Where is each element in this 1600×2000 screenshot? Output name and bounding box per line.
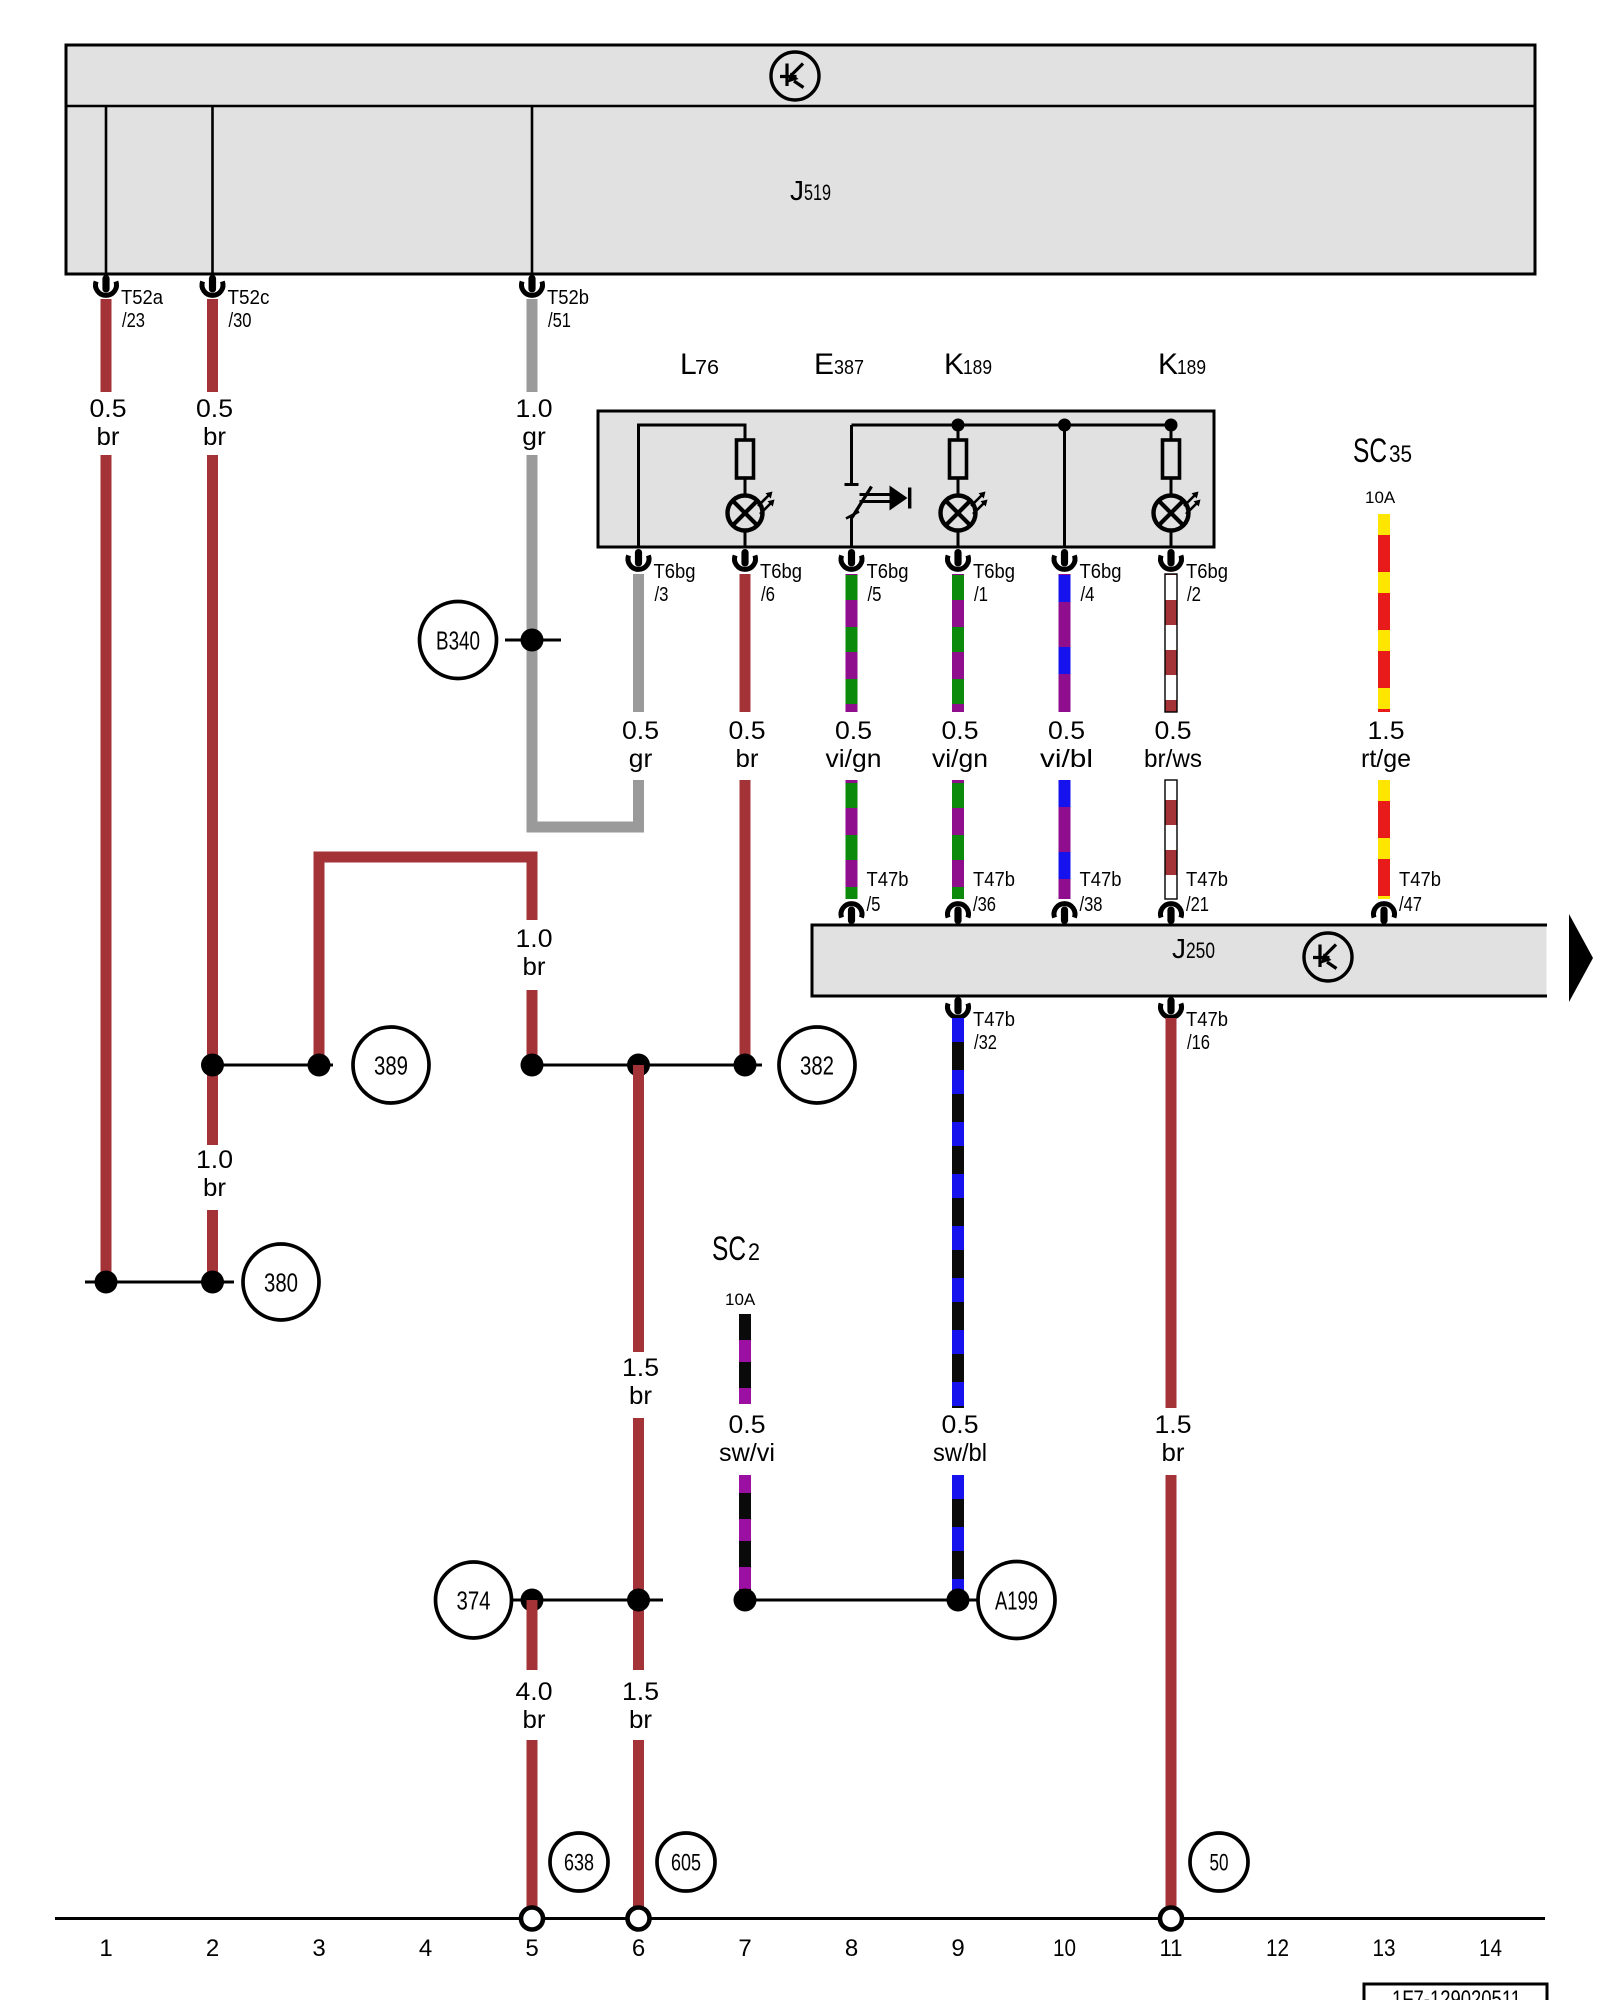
svg-text:0.5: 0.5 xyxy=(622,717,659,745)
wire 1.5 br (column 6, upper) xyxy=(633,1065,644,1352)
svg-text:T47b: T47b xyxy=(867,868,909,891)
ground designation 605 xyxy=(657,1833,715,1891)
label 4.0 br xyxy=(516,1678,553,1734)
svg-text:7: 7 xyxy=(738,1935,751,1962)
label J250 xyxy=(1172,933,1215,964)
svg-text:76: 76 xyxy=(695,357,719,379)
svg-text:4.0: 4.0 xyxy=(516,1678,553,1706)
svg-text:250: 250 xyxy=(1186,938,1215,963)
svg-text:387: 387 xyxy=(834,357,864,379)
svg-text:11: 11 xyxy=(1160,1935,1183,1962)
connector T6bg/6 xyxy=(734,549,802,606)
svg-text:B340: B340 xyxy=(436,625,480,655)
svg-text:/38: /38 xyxy=(1080,893,1103,916)
junction dot wire6/382 xyxy=(627,1054,650,1077)
svg-text:SC: SC xyxy=(1353,432,1387,470)
control unit J519 box xyxy=(66,45,1535,274)
wire 1.5 br from T47b/16 (upper) xyxy=(1166,1018,1177,1408)
svg-text:1.5: 1.5 xyxy=(622,1678,659,1706)
svg-text:br: br xyxy=(523,953,546,981)
wire 0.5 sw/bl (lower to node A199) xyxy=(952,1475,964,1600)
svg-text:/5: /5 xyxy=(868,583,882,606)
ground terminal wire 6 xyxy=(628,1908,650,1930)
connector T6bg/5 xyxy=(841,549,909,606)
svg-text:50: 50 xyxy=(1210,1850,1229,1877)
wire 0.5 sw/vi (lower to node A199 row) xyxy=(739,1475,751,1600)
svg-text:SC: SC xyxy=(712,1230,746,1268)
svg-text:380: 380 xyxy=(264,1267,298,1297)
ground terminal wire 5 xyxy=(521,1908,543,1930)
svg-text:/3: /3 xyxy=(655,583,669,606)
label 1.5 br (column 6 upper) xyxy=(622,1354,659,1410)
wire 0.5 sw/bl from T47b/32 (upper) xyxy=(952,1018,964,1408)
internal wire to T6bg/4 xyxy=(1063,425,1066,548)
connector T47b/38 xyxy=(1054,868,1122,924)
svg-text:T47b: T47b xyxy=(973,868,1015,891)
svg-text:J: J xyxy=(790,175,804,206)
junction dot sw-vi wire end xyxy=(734,1589,757,1612)
switch E387 bottom terminal lead xyxy=(850,517,853,548)
bus junction dot at T6bg/4 wire xyxy=(1058,419,1071,432)
connector T47b/5 xyxy=(841,868,909,924)
junction dot wire2/389 xyxy=(201,1054,224,1077)
svg-text:br: br xyxy=(629,1382,652,1410)
L76 resistor to lamp lead xyxy=(744,478,747,497)
continuation arrow at right of J250 xyxy=(1569,914,1593,1002)
svg-text:0.5: 0.5 xyxy=(942,1411,979,1439)
svg-text:0.5: 0.5 xyxy=(90,395,127,423)
label SC2 xyxy=(712,1230,760,1268)
svg-text:1.5: 1.5 xyxy=(1155,1411,1192,1439)
label 1.0 br (wire 2 lower) xyxy=(196,1146,233,1202)
wire 0.5 br from T6bg/6 (upper) xyxy=(740,574,751,712)
svg-text:0.5: 0.5 xyxy=(196,395,233,423)
connector T47b/47 xyxy=(1374,868,1442,924)
wire 0.5 sw/vi fuse SC2 (upper) xyxy=(739,1314,751,1404)
wire 1.0 br bridge from node 389 up over to node 382 column xyxy=(319,857,532,1065)
svg-text:519: 519 xyxy=(804,180,831,205)
svg-text:35: 35 xyxy=(1389,441,1412,468)
svg-text:T6bg: T6bg xyxy=(973,560,1015,583)
wire 1.0 br from T52c/30 (lower, to node 380) xyxy=(207,1210,218,1282)
svg-text:sw/bl: sw/bl xyxy=(933,1439,987,1467)
label 0.5 br (wire 1) xyxy=(90,395,127,451)
wire 0.5 vi/gn from T6bg/1 (upper) xyxy=(952,574,964,712)
L76 illumination lamp xyxy=(728,492,775,531)
label 0.5 gr xyxy=(622,717,659,773)
earth rail xyxy=(55,1917,1545,1920)
svg-text:6: 6 xyxy=(632,1935,645,1962)
ground designation 638 xyxy=(550,1833,608,1891)
svg-text:/1: /1 xyxy=(974,583,988,606)
svg-text:sw/vi: sw/vi xyxy=(719,1439,775,1467)
wire 4.0 br (column 5, lower to ground 638) xyxy=(527,1740,538,1907)
label 1.5 br (column 6 lower) xyxy=(622,1678,659,1734)
svg-text:br: br xyxy=(523,1706,546,1734)
label 1.0 gr xyxy=(516,395,553,451)
J519 internal connection symbol (K in circle) xyxy=(771,52,819,100)
svg-text:382: 382 xyxy=(800,1050,834,1080)
internal bus line E387-K189 xyxy=(852,424,1172,427)
control unit J250 box xyxy=(812,925,1547,996)
svg-text:T47b: T47b xyxy=(1399,868,1441,891)
svg-text:/36: /36 xyxy=(973,893,996,916)
svg-text:A199: A199 xyxy=(995,1585,1038,1615)
svg-text:10A: 10A xyxy=(725,1290,756,1309)
junction dot wire6/374 xyxy=(627,1589,650,1612)
junction dot sw-bl wire end xyxy=(947,1589,970,1612)
svg-text:3: 3 xyxy=(312,1935,325,1962)
svg-text:vi/gn: vi/gn xyxy=(826,745,882,773)
svg-text:/32: /32 xyxy=(974,1031,997,1054)
svg-text:K: K xyxy=(1158,348,1178,381)
wire 1.5 rt/ge fuse SC35 (upper) xyxy=(1378,514,1390,712)
svg-text:gr: gr xyxy=(522,423,546,451)
svg-text:4: 4 xyxy=(419,1935,432,1962)
junction line at node 382 xyxy=(521,1064,762,1067)
svg-text:10: 10 xyxy=(1053,1935,1076,1962)
switch E387 lever xyxy=(852,487,872,518)
ground terminal wire 11 xyxy=(1160,1908,1182,1930)
svg-text:0.5: 0.5 xyxy=(1155,717,1192,745)
K189 lamp 1 to connector lead xyxy=(957,530,960,548)
svg-text:T52c: T52c xyxy=(228,286,270,309)
node B340 junction dot on gray wire xyxy=(505,629,561,652)
svg-text:br/ws: br/ws xyxy=(1144,745,1202,773)
svg-text:189: 189 xyxy=(963,357,992,379)
diagram reference number box 1F7-129020511 xyxy=(1364,1984,1547,2000)
wire 4.0 br (column 5, upper) xyxy=(527,1600,538,1670)
junction dot wire5/374 xyxy=(521,1589,544,1612)
wire inside J519 to T52a/23 xyxy=(105,106,108,274)
K189 lamp 1 lead xyxy=(957,478,960,497)
svg-text:br: br xyxy=(629,1706,652,1734)
svg-text:0.5: 0.5 xyxy=(942,717,979,745)
switch E387 lower contact tick xyxy=(846,512,859,519)
connector T47b/36 xyxy=(948,868,1015,924)
svg-text:605: 605 xyxy=(671,1850,701,1877)
node 389 xyxy=(353,1027,429,1103)
connector T6bg/3 xyxy=(628,549,696,606)
K189 resistor 2 lead xyxy=(1170,425,1173,441)
svg-text:br: br xyxy=(203,423,226,451)
L76 internal wire from T6bg/3 up and over xyxy=(639,425,746,547)
wire 1.0 gr from T52b/51 (upper) xyxy=(527,299,538,392)
wire 1.0 br bridge lower right leg xyxy=(527,990,538,1065)
junction dot bridge left leg/389 xyxy=(308,1054,331,1077)
svg-text:1: 1 xyxy=(99,1935,112,1962)
svg-text:/16: /16 xyxy=(1187,1031,1210,1054)
connector T6bg/4 xyxy=(1054,549,1122,606)
svg-text:T47b: T47b xyxy=(1186,868,1228,891)
wire 0.5 vi/gn from T6bg/1 (lower) xyxy=(952,780,964,899)
svg-text:0.5: 0.5 xyxy=(729,1411,766,1439)
component box containing L76 E387 K189 xyxy=(598,411,1214,547)
svg-text:/30: /30 xyxy=(229,309,252,332)
svg-text:J: J xyxy=(1172,933,1186,964)
svg-text:gr: gr xyxy=(629,745,653,773)
connector T52b/51 xyxy=(522,275,590,332)
node B340 xyxy=(420,602,497,679)
junction line at node A199 xyxy=(745,1599,978,1602)
svg-text:br: br xyxy=(736,745,759,773)
wire 0.5 vi/bl from T6bg/4 (upper) xyxy=(1059,574,1071,712)
svg-text:T47b: T47b xyxy=(1080,868,1122,891)
svg-text:br: br xyxy=(1162,1439,1185,1467)
wire 0.5 br from T52c/30 (upper) xyxy=(207,299,218,392)
label 0.5 sw/vi xyxy=(719,1411,775,1467)
label E387 xyxy=(814,348,864,381)
wire inside J519 to T52c/30 xyxy=(211,106,214,274)
wire 0.5 br/ws from T6bg/2 (lower) xyxy=(1165,780,1177,899)
junction dot wire1/380 xyxy=(95,1271,118,1294)
svg-text:5: 5 xyxy=(525,1935,538,1962)
svg-text:K: K xyxy=(944,348,964,381)
svg-text:1.0: 1.0 xyxy=(196,1146,233,1174)
connector T6bg/2 xyxy=(1161,549,1229,606)
svg-text:0.5: 0.5 xyxy=(729,717,766,745)
svg-text:T6bg: T6bg xyxy=(760,560,802,583)
track numbers 1-14 xyxy=(99,1935,1502,1962)
bus junction dot at K189 resistor 1 xyxy=(952,419,965,432)
svg-text:10A: 10A xyxy=(1365,488,1396,507)
connector T52c/30 xyxy=(202,275,270,332)
connector T52a/23 xyxy=(96,275,164,332)
label 0.5 vi/bl xyxy=(1040,717,1093,773)
svg-text:T6bg: T6bg xyxy=(654,560,696,583)
label 0.5 br (wire 2) xyxy=(196,395,233,451)
bus corner dot at K189 resistor 2 xyxy=(1165,419,1178,432)
wire 0.5 gr from T6bg/3 (upper) xyxy=(633,574,644,712)
wire 1.5 br (column 6, middle) xyxy=(633,1418,644,1670)
label L76 xyxy=(680,348,719,381)
svg-text:1.0: 1.0 xyxy=(516,925,553,953)
svg-text:2: 2 xyxy=(206,1935,219,1962)
wire 0.5 br from T6bg/6 (lower, to node 382) xyxy=(740,780,751,1065)
svg-text:/47: /47 xyxy=(1399,893,1422,916)
K189 lamp 2 lead xyxy=(1170,478,1173,497)
svg-text:1.5: 1.5 xyxy=(1368,717,1405,745)
svg-text:/2: /2 xyxy=(1187,583,1201,606)
svg-text:374: 374 xyxy=(457,1585,491,1615)
svg-text:12: 12 xyxy=(1266,1935,1289,1962)
label SC35 xyxy=(1353,432,1412,470)
label 0.5 br/ws xyxy=(1144,717,1202,773)
svg-text:T52a: T52a xyxy=(121,286,164,309)
ground designation 50 xyxy=(1190,1833,1248,1891)
svg-text:14: 14 xyxy=(1479,1935,1502,1962)
svg-text:0.5: 0.5 xyxy=(835,717,872,745)
K189 resistor 1 lead xyxy=(957,425,960,441)
label 1.0 br (bridge right leg) xyxy=(516,925,553,981)
svg-text:13: 13 xyxy=(1373,1935,1396,1962)
svg-text:T52b: T52b xyxy=(547,286,589,309)
L76 lamp to connector lead xyxy=(744,530,747,548)
wire 0.5 vi/gn from T6bg/5 (upper) xyxy=(846,574,858,712)
wire inside J519 to T52b/51 xyxy=(531,106,534,274)
svg-text:/23: /23 xyxy=(122,309,145,332)
svg-text:8: 8 xyxy=(845,1935,858,1962)
svg-text:1.5: 1.5 xyxy=(622,1354,659,1382)
svg-text:389: 389 xyxy=(374,1050,408,1080)
svg-text:br: br xyxy=(203,1174,226,1202)
svg-text:/6: /6 xyxy=(761,583,775,606)
junction line at node 380 xyxy=(85,1281,234,1284)
node 374 xyxy=(436,1562,512,1638)
junction line at node 389 xyxy=(213,1064,334,1067)
wire 0.5 br from T52c/30 (middle) xyxy=(207,455,218,1145)
svg-text:189: 189 xyxy=(1177,357,1206,379)
connector T47b/16 xyxy=(1161,997,1229,1054)
K189 resistor 1 xyxy=(950,440,967,478)
wire 0.5 br from T52a/23 (lower, to node 380) xyxy=(101,455,112,1282)
switch E387 top terminal xyxy=(845,425,859,485)
wire 1.5 br (column 11 lower, to ground 50) xyxy=(1166,1475,1177,1907)
svg-text:/51: /51 xyxy=(548,309,571,332)
svg-text:T6bg: T6bg xyxy=(1080,560,1122,583)
svg-text:1.0: 1.0 xyxy=(516,395,553,423)
svg-text:1F7-129020511: 1F7-129020511 xyxy=(1392,1986,1521,2000)
L76 series resistor xyxy=(737,440,754,478)
K189 indicator lamp 1 xyxy=(941,492,988,531)
svg-text:9: 9 xyxy=(951,1935,964,1962)
wire 0.5 vi/bl from T6bg/4 (lower) xyxy=(1059,780,1071,899)
label 0.5 vi/gn (T6bg/1) xyxy=(932,717,988,773)
label 0.5 br (T6bg/6) xyxy=(729,717,766,773)
svg-text:T6bg: T6bg xyxy=(1186,560,1228,583)
junction dot T6bg6-wire/382 xyxy=(734,1054,757,1077)
svg-text:vi/gn: vi/gn xyxy=(932,745,988,773)
svg-text:rt/ge: rt/ge xyxy=(1361,745,1411,773)
wire 0.5 br/ws from T6bg/2 (upper) xyxy=(1165,574,1177,712)
svg-text:0.5: 0.5 xyxy=(1048,717,1085,745)
svg-text:T6bg: T6bg xyxy=(867,560,909,583)
connector T47b/32 xyxy=(948,997,1015,1054)
connector T6bg/1 xyxy=(948,549,1015,606)
svg-text:vi/bl: vi/bl xyxy=(1040,745,1093,773)
K189 indicator lamp 2 xyxy=(1154,492,1201,531)
svg-text:/4: /4 xyxy=(1081,583,1095,606)
label K189 (second) xyxy=(1158,348,1206,381)
wire 0.5 vi/gn from T6bg/5 (lower) xyxy=(846,780,858,899)
node 382 xyxy=(779,1027,855,1103)
svg-text:/5: /5 xyxy=(867,893,881,916)
svg-text:T47b: T47b xyxy=(973,1008,1015,1031)
K189 resistor 2 xyxy=(1163,440,1180,478)
wire 1.0 gr from T52b/51 down and over to T6bg/3 branch xyxy=(527,455,645,833)
label K189 (first) xyxy=(944,348,992,381)
label 1.5 br (column 11) xyxy=(1155,1411,1192,1467)
svg-text:br: br xyxy=(97,423,120,451)
junction line at node 374 xyxy=(511,1599,663,1602)
label 0.5 vi/gn (T6bg/5) xyxy=(826,717,882,773)
connector T47b/21 xyxy=(1161,868,1229,924)
node A199 xyxy=(978,1562,1055,1639)
svg-text:638: 638 xyxy=(564,1850,594,1877)
wire 0.5 br from T52a/23 (upper) xyxy=(101,299,112,392)
label 0.5 sw/bl xyxy=(933,1411,987,1467)
wire 1.5 rt/ge (lower to T47b/47) xyxy=(1378,780,1390,899)
svg-text:E: E xyxy=(814,348,834,381)
svg-text:/21: /21 xyxy=(1186,893,1209,916)
wire 1.5 br (column 6, lower to ground 605) xyxy=(633,1740,644,1907)
junction dot wire2/380 xyxy=(201,1271,224,1294)
switch E387 actuator double line and arrow xyxy=(860,486,912,511)
label 1.5 rt/ge xyxy=(1361,717,1411,773)
svg-text:2: 2 xyxy=(748,1239,760,1266)
J250 internal connection symbol (K in circle) xyxy=(1304,933,1352,981)
label J519 xyxy=(790,175,831,206)
K189 lamp 2 to connector lead xyxy=(1170,530,1173,548)
junction dot bridge right leg/382 xyxy=(521,1054,544,1077)
node 380 xyxy=(243,1244,319,1320)
svg-text:T47b: T47b xyxy=(1186,1008,1228,1031)
